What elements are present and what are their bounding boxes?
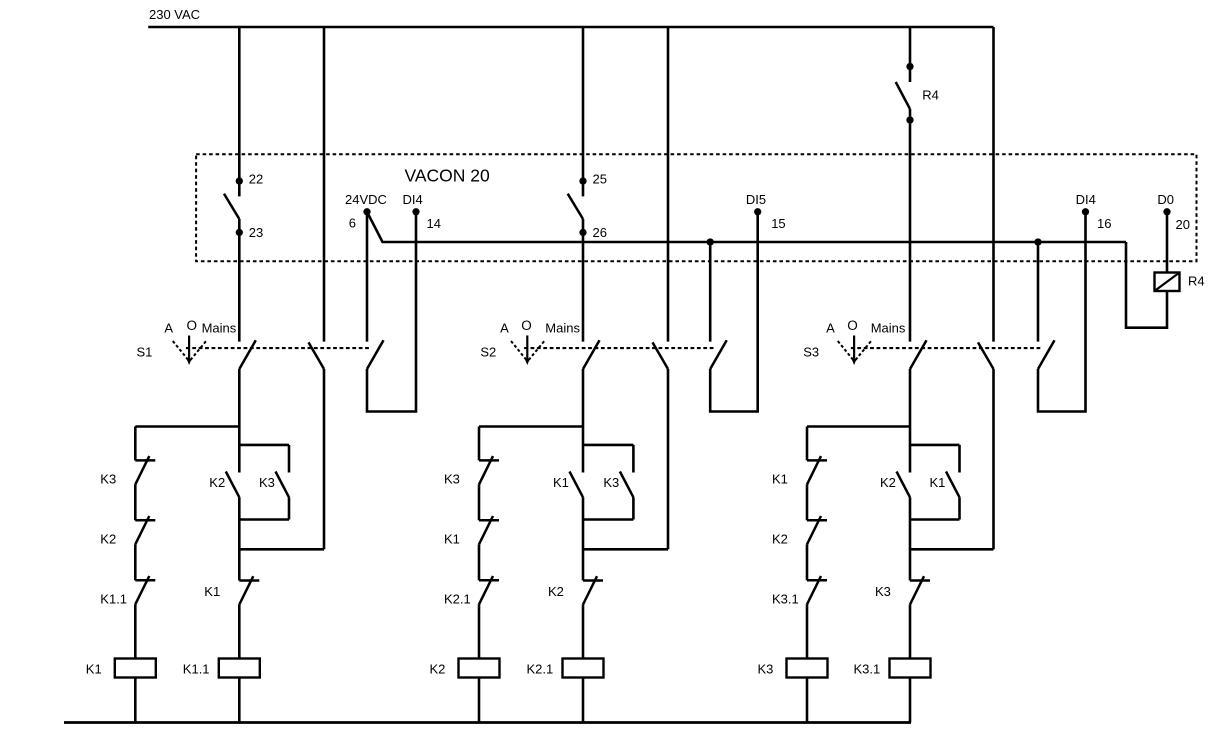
svg-text:K2: K2 bbox=[100, 531, 116, 546]
svg-text:A: A bbox=[500, 321, 509, 336]
wire S3 contact 2 down bbox=[992, 369, 995, 549]
svg-text:K3: K3 bbox=[603, 475, 619, 490]
wire 24VDC to S1 contact 3 bbox=[366, 212, 369, 342]
relay output contact 25/26 (NO) bbox=[568, 194, 583, 219]
wire contact 23 to selector bbox=[238, 219, 241, 342]
wire coil to bottom bus bbox=[478, 678, 481, 723]
dashed mechanical link S3 bbox=[851, 347, 1042, 349]
svg-text:O: O bbox=[521, 318, 532, 333]
svg-text:VACON 20: VACON 20 bbox=[405, 165, 491, 185]
wire bbox=[478, 544, 481, 580]
svg-text:K1.1: K1.1 bbox=[100, 591, 127, 606]
node R4 contact bottom bbox=[906, 116, 913, 123]
wire bus drop to relay contact R4 bbox=[909, 27, 912, 82]
contact K2 (NC) bbox=[807, 519, 827, 522]
wire bbox=[958, 497, 961, 519]
wire left chain top bbox=[134, 427, 137, 461]
node R4 contact top bbox=[906, 63, 913, 70]
wire relay coil R4 return to rail bbox=[1126, 242, 1167, 328]
node 26 bbox=[579, 229, 586, 236]
svg-text:K1: K1 bbox=[444, 531, 460, 546]
node rail junction S2 bbox=[707, 238, 714, 245]
svg-text:K3: K3 bbox=[100, 471, 116, 486]
wire S1 contact 2 down bbox=[323, 369, 326, 549]
dashed mechanical link S1 bbox=[186, 347, 371, 349]
wire rail to S3 contact 3 bbox=[1037, 242, 1040, 342]
coil K3.1 bbox=[890, 659, 931, 678]
svg-text:Mains: Mains bbox=[871, 321, 906, 336]
wire S3 contact 3 loop to terminal bbox=[1038, 212, 1086, 412]
svg-text:Mains: Mains bbox=[545, 321, 580, 336]
relay contact R4 (NO) bbox=[896, 82, 910, 109]
node 22 bbox=[236, 177, 243, 184]
wire left chain top bbox=[478, 427, 481, 461]
wire coil to bottom bus bbox=[238, 678, 241, 723]
wire S2 contact 2 down bbox=[667, 369, 670, 549]
node 23 bbox=[236, 229, 243, 236]
svg-text:K1: K1 bbox=[86, 662, 102, 677]
svg-text:A: A bbox=[826, 321, 835, 336]
wire junction from contact 2 bbox=[910, 548, 994, 551]
coil K1 bbox=[115, 659, 156, 678]
wire junction from contact 2 bbox=[583, 548, 668, 551]
contact K3.1 (NC) bbox=[807, 579, 827, 582]
svg-text:230 VAC: 230 VAC bbox=[149, 7, 200, 22]
svg-text:S3: S3 bbox=[803, 345, 819, 360]
wire bus drop to S2 middle contact bbox=[667, 27, 670, 342]
wire middle chain bbox=[238, 497, 241, 580]
wire junction from contact 2 bbox=[239, 548, 324, 551]
wire left chain to coil bbox=[478, 604, 481, 658]
svg-text:K1.1: K1.1 bbox=[183, 662, 210, 677]
svg-text:K3: K3 bbox=[444, 471, 460, 486]
contact K1 (NC) bbox=[239, 579, 259, 582]
contact K2 (NO) bbox=[897, 472, 911, 498]
svg-text:K2: K2 bbox=[548, 584, 564, 599]
coil K2 bbox=[459, 659, 500, 678]
svg-text:20: 20 bbox=[1176, 217, 1190, 232]
wire parallel branch bottom bbox=[910, 518, 960, 521]
S2 contact 1 bbox=[583, 340, 600, 369]
wire right parallel leg bbox=[288, 445, 291, 473]
relay output contact 22/23 (NO) bbox=[224, 194, 239, 219]
svg-text:K2.1: K2.1 bbox=[527, 662, 554, 677]
contact K1 (NO) bbox=[570, 472, 584, 498]
wire S1 contact 3 loop to terminal bbox=[367, 212, 416, 412]
wire parallel branch top bbox=[910, 444, 960, 447]
wire branch to left chain bbox=[807, 425, 910, 428]
svg-text:23: 23 bbox=[249, 225, 263, 240]
coil K2.1 bbox=[563, 659, 604, 678]
svg-text:O: O bbox=[186, 318, 197, 333]
S2 contact 3 bbox=[710, 340, 727, 369]
svg-text:O: O bbox=[847, 318, 858, 333]
wire middle chain to coil bbox=[909, 605, 912, 659]
wire bbox=[134, 484, 137, 520]
wire S1 contact 1 down bbox=[238, 369, 241, 473]
wire bus drop to S3 middle contact bbox=[992, 27, 995, 342]
wire parallel branch bottom bbox=[239, 518, 289, 521]
svg-text:DI4: DI4 bbox=[1076, 192, 1096, 207]
svg-text:K3.1: K3.1 bbox=[854, 662, 881, 677]
svg-text:K3: K3 bbox=[875, 584, 891, 599]
wire branch to left chain bbox=[135, 425, 239, 428]
dashed mechanical link S2 bbox=[524, 347, 714, 349]
svg-text:K1: K1 bbox=[772, 471, 788, 486]
wire S3 contact 1 down bbox=[909, 369, 912, 473]
svg-text:K1: K1 bbox=[553, 475, 569, 490]
svg-text:D0: D0 bbox=[1157, 192, 1174, 207]
svg-text:K2: K2 bbox=[430, 662, 446, 677]
wire left chain to coil bbox=[134, 604, 137, 658]
contact K3 (NC) bbox=[910, 579, 930, 582]
svg-text:S1: S1 bbox=[137, 345, 153, 360]
svg-text:22: 22 bbox=[249, 171, 263, 186]
wire bbox=[134, 544, 137, 580]
wire coil to bottom bus bbox=[582, 678, 585, 723]
svg-text:K3: K3 bbox=[259, 475, 275, 490]
wire S2 contact 1 down bbox=[582, 369, 585, 473]
svg-text:K3.1: K3.1 bbox=[772, 591, 799, 606]
VACON 20 drive enclosure (dashed) bbox=[196, 154, 1196, 261]
wire bbox=[288, 497, 291, 519]
wire parallel branch top bbox=[583, 444, 633, 447]
svg-text:DI4: DI4 bbox=[402, 192, 422, 207]
wire middle chain to coil bbox=[238, 605, 241, 659]
contact K2.1 (NC) bbox=[479, 579, 499, 582]
wire bbox=[632, 497, 635, 519]
wire branch to left chain bbox=[479, 425, 583, 428]
coil K3 bbox=[787, 659, 828, 678]
wire 230 VAC bus bbox=[148, 26, 993, 29]
S3 contact 3 bbox=[1038, 340, 1055, 369]
svg-text:A: A bbox=[164, 321, 173, 336]
node rail junction S3 bbox=[1034, 238, 1041, 245]
wire bus drop to terminal 25 bbox=[582, 27, 585, 196]
wire bbox=[806, 544, 809, 580]
S1 contact 3 bbox=[367, 340, 384, 369]
svg-text:S2: S2 bbox=[480, 345, 496, 360]
svg-text:16: 16 bbox=[1097, 216, 1111, 231]
wire D0 to relay coil R4 bbox=[1166, 212, 1169, 273]
svg-text:DI5: DI5 bbox=[746, 192, 766, 207]
svg-text:K2: K2 bbox=[209, 475, 225, 490]
wire coil to bottom bus bbox=[134, 678, 137, 723]
wire middle chain bbox=[582, 497, 585, 580]
svg-text:K1: K1 bbox=[930, 475, 946, 490]
wire bbox=[806, 484, 809, 520]
S3 contact 1 bbox=[910, 340, 927, 369]
wire right parallel leg bbox=[958, 445, 961, 473]
wire bbox=[478, 484, 481, 520]
svg-text:K3: K3 bbox=[758, 662, 774, 677]
wire bottom return bus bbox=[64, 721, 911, 724]
wire S2 contact 3 loop to terminal bbox=[710, 212, 758, 412]
contact K2 (NO) bbox=[226, 472, 240, 498]
wire bus drop to S1 middle contact bbox=[323, 27, 326, 342]
contact K1 (NC) bbox=[479, 519, 499, 522]
contact K1.1 (NC) bbox=[135, 579, 155, 582]
svg-text:25: 25 bbox=[593, 171, 607, 186]
wire rail to S2 contact 3 bbox=[709, 242, 712, 342]
wire 24VDC rail bbox=[367, 212, 1126, 242]
node 25 bbox=[579, 177, 586, 184]
svg-text:R4: R4 bbox=[922, 88, 939, 103]
contact K3 (NO) bbox=[620, 472, 634, 498]
wire R4 contact to S3 first contact bbox=[909, 109, 912, 342]
S1 contact 2 bbox=[309, 342, 325, 369]
svg-text:24VDC: 24VDC bbox=[345, 192, 387, 207]
S1 contact 1 bbox=[239, 340, 256, 369]
contact K1 (NC) bbox=[807, 459, 827, 462]
contact K1 (NO) bbox=[946, 472, 960, 498]
wire coil to bottom bus bbox=[806, 678, 809, 723]
svg-text:14: 14 bbox=[427, 216, 441, 231]
wire left chain to coil bbox=[806, 604, 809, 658]
wire left chain top bbox=[806, 427, 809, 461]
contact K2 (NC) bbox=[135, 519, 155, 522]
wire parallel branch bottom bbox=[583, 518, 633, 521]
wire parallel branch top bbox=[239, 444, 289, 447]
relay coil R4 bbox=[1155, 273, 1180, 292]
svg-text:K1: K1 bbox=[204, 584, 220, 599]
svg-text:26: 26 bbox=[593, 225, 607, 240]
wire bus drop to terminal 22 bbox=[238, 27, 241, 196]
svg-text:K2: K2 bbox=[880, 475, 896, 490]
svg-text:6: 6 bbox=[349, 216, 356, 231]
wire coil to bottom bus bbox=[909, 678, 912, 723]
svg-text:Mains: Mains bbox=[202, 321, 237, 336]
S3 contact 2 bbox=[978, 342, 994, 369]
coil K1.1 bbox=[219, 659, 260, 678]
wire middle chain to coil bbox=[582, 605, 585, 659]
wire contact 26 to selector bbox=[582, 219, 585, 342]
svg-text:R4: R4 bbox=[1188, 273, 1205, 288]
contact K2 (NC) bbox=[583, 579, 603, 582]
wire middle chain bbox=[909, 497, 912, 580]
contact K3 (NC) bbox=[479, 459, 499, 462]
contact K3 (NO) bbox=[276, 472, 290, 498]
contact K3 (NC) bbox=[135, 459, 155, 462]
wire right parallel leg bbox=[632, 445, 635, 473]
svg-text:15: 15 bbox=[771, 216, 785, 231]
svg-text:K2: K2 bbox=[772, 531, 788, 546]
svg-text:K2.1: K2.1 bbox=[444, 591, 471, 606]
S2 contact 2 bbox=[653, 342, 669, 369]
